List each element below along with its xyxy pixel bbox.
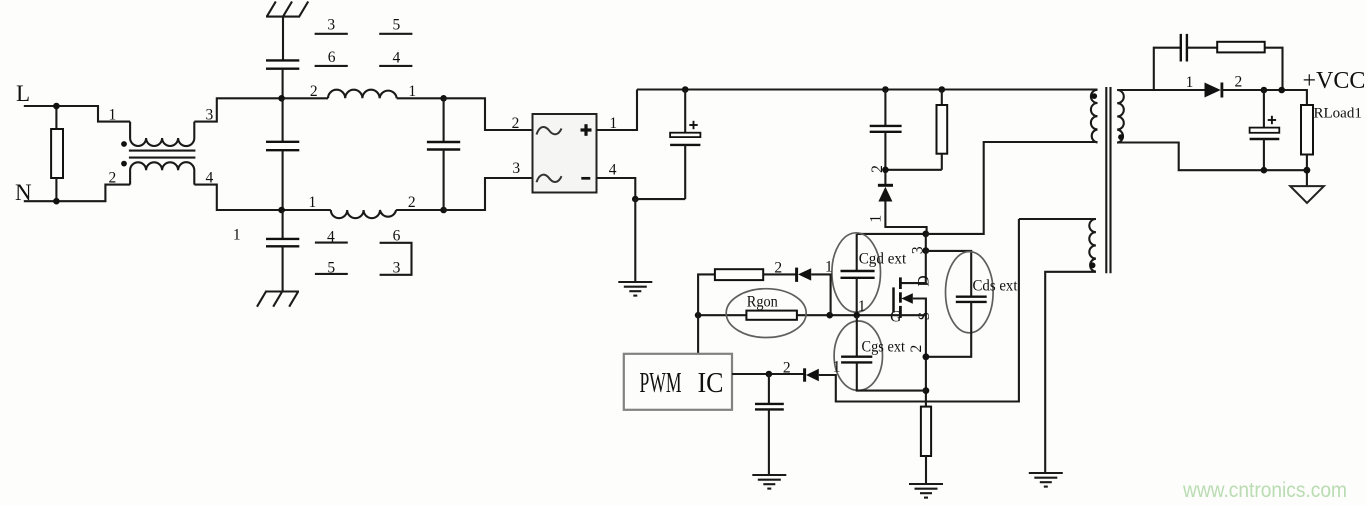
svg-text:4: 4 — [393, 49, 401, 66]
bridge rectifier B1 — [533, 114, 597, 193]
transformer T2 aux winding — [1089, 219, 1096, 272]
junction gate / Rgon left — [695, 312, 702, 319]
wire R4 to D3 — [763, 273, 796, 275]
resistor Rgon body — [746, 311, 797, 320]
junction snubber join — [882, 167, 889, 174]
capacitor C8 (output snubber) — [1180, 34, 1182, 62]
wire C1 to node — [282, 69, 284, 99]
capacitor C5 plates — [684, 90, 686, 133]
svg-text:1: 1 — [858, 298, 866, 315]
wire choke pin4 to filter — [194, 185, 330, 210]
wire R5 down to cathode node — [1265, 48, 1283, 90]
svg-text:3: 3 — [909, 246, 926, 254]
svg-text:Cds ext: Cds ext — [973, 278, 1019, 295]
wire node to C2 — [282, 98, 284, 142]
junction source / Cds bottom — [923, 353, 930, 360]
svg-text:IC: IC — [698, 368, 724, 399]
junction snubber res top — [939, 86, 946, 93]
common-mode choke T1 top winding — [130, 122, 194, 147]
junction output cap top — [1261, 87, 1268, 94]
junction source / Cgs bottom — [923, 387, 930, 394]
Rgon ellipse — [726, 289, 806, 338]
junction neutral node — [278, 207, 285, 214]
ground (output, open triangle) — [1290, 186, 1324, 203]
bridge ac symbol bottom — [537, 175, 562, 183]
capacitor Cds ext plates — [956, 296, 987, 298]
ground (bridge) — [618, 282, 652, 296]
primary phase dot — [1091, 93, 1097, 99]
svg-text:PWM: PWM — [640, 368, 682, 399]
wire drain vertical — [925, 234, 927, 251]
svg-text:1: 1 — [833, 358, 841, 375]
diode D4 (cathode left) — [803, 368, 806, 381]
capacitor C9 (output electrolytic) plus — [1268, 116, 1276, 124]
MOSFET Q1 channel bar segments — [899, 277, 902, 318]
wire D2 to +VCC — [1221, 90, 1307, 105]
wire Cds top branch — [926, 251, 971, 297]
resistor R2 (snubber) — [941, 90, 943, 106]
svg-text:+VCC: +VCC — [1303, 68, 1366, 94]
svg-text:2: 2 — [783, 360, 791, 377]
wire secondary top — [1117, 89, 1204, 91]
wire PWM IC top lead — [697, 315, 699, 354]
svg-text:1: 1 — [868, 215, 885, 223]
svg-text:2: 2 — [1235, 74, 1243, 91]
wire gnd node to ground — [634, 199, 636, 282]
capacitor Cgd ext — [856, 234, 858, 271]
bridge minus symbol — [581, 177, 590, 180]
wire source vertical — [925, 315, 927, 407]
wire choke pin3 to filter — [194, 98, 328, 121]
capacitor C5 (bulk electrolytic) plus — [689, 121, 697, 129]
wire PWM output — [732, 373, 804, 375]
wire R3 to ground — [925, 456, 927, 484]
MOSFET Q1 gate bar — [892, 287, 895, 312]
wire to bridge input 2 — [444, 98, 533, 130]
resistor R3 (source sense) — [921, 407, 931, 456]
capacitor C2 (X-cap mid) — [266, 141, 299, 143]
wire gnd node to C5 — [635, 198, 685, 200]
resistor R1 (across L-N) — [55, 106, 57, 129]
secondary phase dot — [1118, 134, 1124, 140]
svg-text:2: 2 — [869, 165, 886, 173]
svg-text:www.cntronics.com: www.cntronics.com — [1182, 479, 1347, 502]
wire drain node to primary — [926, 142, 1098, 234]
aux phase dot — [1090, 262, 1096, 268]
Cds ext ellipse — [946, 252, 994, 333]
svg-text:2: 2 — [310, 83, 318, 100]
svg-text:2: 2 — [512, 115, 520, 132]
Cgs ext ellipse — [834, 321, 882, 390]
gate wire — [698, 314, 926, 316]
resistor R4 (turn-off) — [715, 269, 763, 280]
wire to bridge input 3 — [444, 178, 533, 210]
svg-text:1: 1 — [825, 259, 833, 276]
wire N input — [24, 185, 130, 202]
wire D1 to drain node — [885, 201, 926, 234]
capacitor C6 (snubber) — [884, 90, 886, 126]
junction output cap bottom — [1261, 167, 1268, 174]
MOSFET Q1 body wire to source — [913, 299, 926, 316]
svg-text:G: G — [890, 309, 901, 326]
wire Cds bottom branch — [926, 302, 971, 357]
svg-text:Rgon: Rgon — [747, 293, 778, 310]
svg-text:2: 2 — [109, 169, 117, 186]
junction bridge gnd node — [632, 196, 639, 203]
junction N — [53, 198, 60, 205]
diode D3 (cathode left) — [795, 268, 798, 282]
capacitor C9 plates — [1263, 90, 1265, 128]
junction drain node A — [922, 231, 929, 238]
inductor L2 (bottom filter) — [331, 210, 396, 218]
junction line node — [278, 95, 285, 102]
svg-text:1: 1 — [309, 194, 317, 211]
wire C2 to neutral node — [282, 150, 284, 210]
MOSFET Q1 body arrow — [901, 293, 913, 303]
svg-text:2: 2 — [408, 194, 416, 211]
wire bridge pin1 to rail — [597, 90, 638, 131]
svg-text:5: 5 — [393, 16, 401, 33]
junction C5 top — [682, 86, 689, 93]
transformer T2 primary winding — [1091, 90, 1098, 143]
resistor RLoad1 — [1301, 105, 1313, 155]
wire L input — [24, 106, 130, 122]
junction snubber right — [1278, 87, 1285, 94]
junction L — [53, 103, 60, 110]
wire L2 to bridge node — [396, 209, 444, 211]
choke core lines — [129, 150, 196, 152]
chassis ground top — [266, 2, 308, 17]
wire snubber RC join — [885, 169, 941, 171]
common-mode choke T1 bottom winding — [130, 162, 194, 184]
capacitor C1 (Y-cap top) — [266, 59, 299, 61]
capacitor Cgs ext — [856, 315, 858, 357]
ground (source) — [909, 484, 943, 498]
resistor R5 (output snubber) — [1217, 42, 1265, 53]
diode D1 (snubber, cathode up) — [878, 184, 893, 187]
wire RLoad1 to bottom rail — [1306, 155, 1308, 187]
ground (aux) — [1029, 473, 1063, 487]
wire secondary bottom — [1117, 143, 1307, 171]
wire aux bottom to ground — [1045, 272, 1096, 473]
wire turn-off branch up — [698, 274, 715, 315]
wire L1 to bridge node — [397, 97, 444, 99]
svg-text:Cgs ext: Cgs ext — [862, 339, 906, 356]
wire Cgd top to drain node — [857, 233, 926, 235]
svg-text:1: 1 — [1186, 74, 1194, 91]
transformer T2 secondary winding — [1117, 90, 1124, 143]
wire secondary snubber branch up — [1154, 48, 1181, 90]
svg-text:1: 1 — [233, 227, 241, 244]
svg-text:2: 2 — [908, 345, 925, 353]
svg-text:6: 6 — [328, 49, 336, 66]
svg-text:2: 2 — [774, 259, 782, 276]
inductor L1 (top filter) — [328, 90, 397, 99]
capacitor C3 (Y-cap bottom) — [266, 238, 299, 240]
svg-text:L: L — [16, 81, 30, 106]
svg-text:RLoad1: RLoad1 — [1314, 106, 1362, 122]
junction X-cap bottom — [440, 207, 447, 214]
svg-text:3: 3 — [512, 160, 520, 177]
svg-text:4: 4 — [609, 162, 617, 179]
bridge ac symbol top — [537, 127, 562, 135]
ground (PWM) — [752, 475, 786, 489]
wire bridge pin4 down — [597, 178, 636, 199]
capacitor C4 (X-cap) — [443, 98, 445, 142]
choke phase dot bottom — [121, 161, 127, 167]
wire aux top — [1019, 218, 1096, 220]
top rail — [637, 88, 1098, 90]
PWM IC box U1 — [624, 354, 732, 410]
junction snubber cap top — [882, 86, 889, 93]
junction RLoad bottom — [1304, 167, 1311, 174]
Cgd ext ellipse — [832, 233, 881, 312]
junction gate / diode branch — [826, 312, 833, 319]
svg-text:3: 3 — [327, 17, 335, 34]
choke phase dot top — [121, 141, 127, 147]
wire D4 to aux rail — [819, 219, 1019, 402]
bridge plus symbol — [581, 128, 592, 131]
chassis ground bottom — [257, 292, 299, 307]
wire chassis to C1 — [282, 17, 284, 61]
junction X-cap top — [440, 95, 447, 102]
junction PWM output — [766, 371, 773, 378]
svg-text:Cgd ext: Cgd ext — [859, 251, 907, 268]
junction drain node B — [922, 247, 929, 254]
capacitor C7 (PWM decoupling) — [768, 374, 770, 404]
transformer core lines — [1105, 87, 1107, 273]
diode D2 (output rectifier) — [1205, 83, 1221, 98]
wire C3 to chassis — [282, 246, 284, 291]
wire C8 to R5 — [1187, 47, 1217, 49]
svg-text:1: 1 — [109, 107, 117, 124]
wire D3 to gate branch — [811, 274, 830, 315]
wire node to C3 — [282, 210, 284, 239]
junction gate / Cgd Cgs — [853, 312, 860, 319]
MOSFET Q1 drain lead — [900, 251, 925, 284]
svg-text:3: 3 — [393, 260, 401, 277]
svg-text:D: D — [915, 275, 932, 286]
